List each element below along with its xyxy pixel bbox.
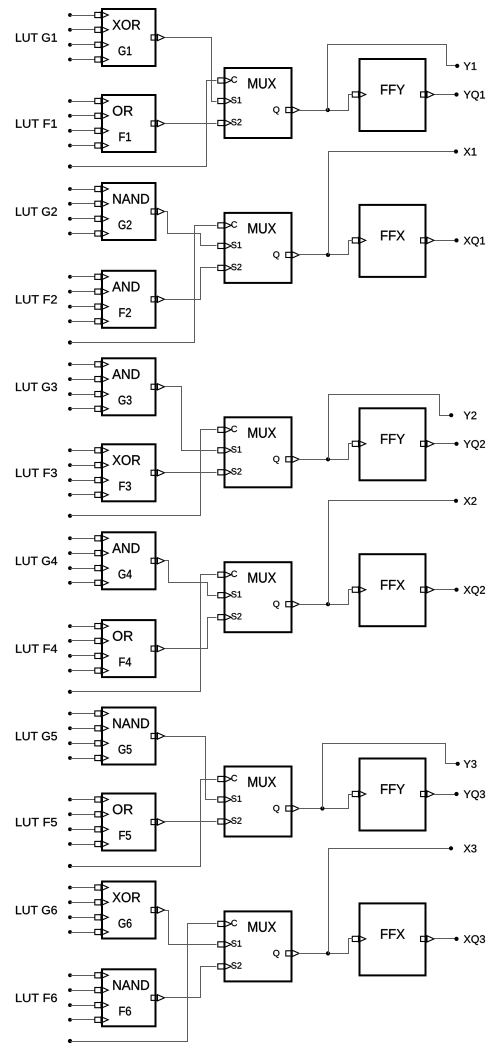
MUX MY2 block [225, 417, 292, 487]
LUT F5 input pin I2 wire [68, 811, 108, 817]
node: output terminal Y3 [456, 760, 477, 768]
LUT F4 input pin I1 wire [68, 623, 108, 629]
LUT G6 output pin [151, 907, 164, 913]
MUX MX3 pin S1 [218, 940, 242, 947]
wire: MUX Q -> FFX D [299, 241, 353, 255]
LUT F3 input pin I2 wire [68, 462, 108, 468]
node: Y2 junction on MUX Q net [326, 457, 330, 461]
net label LUT G5 [16, 732, 57, 740]
flip-flop FFX block [360, 205, 426, 277]
MUX MY2 output pin Q [273, 456, 299, 464]
MUX MX3 border [225, 911, 292, 981]
LUT F2 input pin I3 wire [68, 304, 108, 310]
LUT G1 block (XOR) [102, 9, 156, 66]
flip-flop FFY output pin Q [421, 791, 434, 797]
LUT F3 input pin I3 wire [68, 477, 108, 483]
MUX MY3 pin S1 [218, 795, 242, 802]
wire: LUT G3 out -> MUX S1 [165, 387, 217, 451]
net label LUT F4 [16, 645, 57, 653]
LUT G5 block (NAND) [102, 708, 156, 765]
LUT G1 input pin I2 wire [68, 27, 108, 33]
wire: LUT G5 out -> MUX S1 [165, 737, 217, 800]
MUX MY1 pin S1 [218, 97, 242, 104]
LUT G4 block (AND) [102, 532, 156, 589]
wire: LUT F2 out -> MUX S2 [165, 268, 217, 300]
node: output terminal XQ3 [454, 935, 485, 945]
wire: C rail -> MUX MY2 C (net K2) [68, 430, 217, 518]
node: Y3 junction on MUX Q net [320, 806, 324, 810]
LUT G6 block (XOR) [102, 882, 156, 939]
wire: FFX Q -> output XQ2 [435, 589, 457, 591]
LUT F2 border [102, 271, 156, 328]
wire: LUT F5 out -> MUX S2 [165, 821, 217, 823]
node: output terminal X3 [449, 845, 477, 853]
node: output terminal YQ1 [454, 91, 485, 101]
node: output terminal X2 [454, 497, 477, 505]
LUT F5 block (OR) [102, 794, 156, 851]
MUX MX3 block [225, 911, 292, 981]
LUT F6 input pin I3 wire [68, 1002, 108, 1008]
MUX MY1 block [225, 68, 292, 138]
MUX MY3 block [225, 767, 292, 837]
MUX MX3 pin C [218, 920, 237, 927]
wire: MUX Q -> FFY D [299, 95, 353, 111]
flip-flop FFX output pin Q [421, 587, 434, 593]
LUT F6 output pin [151, 995, 164, 1001]
flip-flop FFY output pin Q [421, 91, 434, 97]
LUT F1 border [102, 95, 156, 152]
MUX MX1 pin C [218, 221, 237, 228]
wire: C rail -> MUX MY3 C (net K3) [68, 780, 217, 869]
LUT G2 output pin [151, 208, 164, 214]
LUT G3 output pin [151, 384, 164, 390]
MUX MY2 pin C [218, 426, 237, 433]
node: output terminal Y1 [455, 62, 476, 70]
LUT F5 border [102, 794, 156, 851]
MUX MX3 output pin Q [273, 950, 299, 958]
wire: FFY Q -> output YQ1 [435, 94, 457, 96]
LUT F2 output pin [151, 296, 164, 302]
LUT G5 output pin [151, 733, 164, 739]
LUT G3 border [102, 358, 156, 415]
MUX MY3 output pin Q [273, 805, 299, 813]
wire: MUX Q -> FFY D [299, 795, 353, 809]
wire: MUX Q -> FFX D [299, 939, 353, 954]
node: output terminal X1 [454, 148, 477, 156]
LUT G2 border [102, 183, 156, 240]
wire: C rail -> MUX MX3 C (net K3x) [68, 924, 217, 1044]
net label LUT G3 [16, 383, 57, 391]
wire: LUT G1 out -> MUX S1 [165, 38, 217, 102]
net label LUT F6 [16, 994, 57, 1002]
LUT F1 input pin I1 wire [68, 98, 108, 104]
net label LUT G4 [16, 557, 57, 565]
MUX MY3 border [225, 767, 292, 837]
LUT F4 input pin I3 wire [68, 653, 108, 659]
wire: MUX Q -> output X1 [329, 152, 457, 255]
MUX MX1 border [225, 213, 292, 283]
flip-flop FFY block [360, 408, 426, 480]
LUT G3 block (AND) [102, 358, 156, 415]
LUT F1 input pin I2 wire [68, 113, 108, 119]
LUT F3 block (XOR) [102, 444, 156, 501]
flip-flop FFX output pin Q [421, 237, 434, 243]
LUT F6 input pin I4 wire [68, 1017, 108, 1023]
flip-flop FFX border [360, 554, 426, 626]
LUT G2 input pin I2 wire [68, 201, 108, 207]
flip-flop FFX output pin Q [421, 936, 434, 942]
MUX MX2 pin S2 [218, 613, 242, 620]
LUT F5 input pin I3 wire [68, 826, 108, 832]
MUX MY2 pin S2 [218, 468, 242, 475]
LUT G2 input pin I3 wire [68, 216, 108, 222]
LUT F4 input pin I2 wire [68, 638, 108, 644]
MUX MY2 border [225, 417, 292, 487]
LUT F2 input pin I2 wire [68, 289, 108, 295]
flip-flop FFY border [360, 759, 426, 831]
wire: MUX Q -> output Y2 [329, 395, 452, 460]
LUT F4 block (OR) [102, 620, 156, 677]
node: output terminal YQ2 [454, 440, 485, 450]
LUT G6 input pin I2 wire [68, 899, 108, 905]
node: Y1 junction on MUX Q net [326, 108, 330, 112]
MUX MY2 pin S1 [218, 446, 242, 453]
wire: LUT G6 out -> MUX S1 [165, 911, 217, 945]
LUT G3 input pin I3 wire [68, 391, 108, 397]
flip-flop FFX input pin D [352, 936, 365, 942]
wire: MUX Q -> output X3 [329, 849, 452, 954]
flip-flop FFX block [360, 554, 426, 626]
LUT G5 input pin I1 wire [68, 710, 108, 716]
flip-flop FFY input pin D [352, 91, 365, 97]
MUX MX1 pin S2 [218, 264, 242, 271]
flip-flop FFY block [360, 59, 426, 131]
wire: MUX Q -> output X2 [329, 501, 457, 605]
flip-flop FFX border [360, 205, 426, 277]
node: output terminal Y2 [449, 412, 476, 420]
MUX MX1 pin S1 [218, 242, 242, 249]
LUT F1 input pin I3 wire [68, 128, 108, 134]
LUT G4 input pin I1 wire [68, 535, 108, 541]
LUT G3 input pin I4 wire [68, 406, 108, 412]
net label LUT F5 [16, 818, 57, 826]
MUX MY1 output pin Q [273, 107, 299, 115]
wire: LUT F1 out -> MUX S2 [165, 123, 217, 125]
node: X3 junction on MUX Q net [326, 951, 330, 955]
LUT G1 input pin I3 wire [68, 42, 108, 48]
LUT F2 input pin I1 wire [68, 274, 108, 280]
flip-flop FFX block [360, 903, 426, 975]
LUT G4 border [102, 532, 156, 589]
MUX MY3 pin C [218, 775, 237, 782]
LUT G3 input pin I1 wire [68, 361, 108, 367]
LUT F3 output pin [151, 470, 164, 476]
LUT F3 input pin I4 wire [68, 492, 108, 498]
LUT G2 input pin I4 wire [68, 230, 108, 236]
LUT F4 input pin I4 wire [68, 668, 108, 674]
MUX MY3 pin S2 [218, 817, 242, 824]
node: X2 junction on MUX Q net [326, 602, 330, 606]
wire: LUT F4 out -> MUX S2 [165, 618, 217, 649]
LUT G1 output pin [151, 34, 164, 40]
LUT F1 input pin I4 wire [68, 142, 108, 148]
wire: LUT F3 out -> MUX S2 [165, 472, 217, 474]
LUT F6 border [102, 969, 156, 1026]
MUX MX2 pin S1 [218, 591, 242, 598]
wire: LUT G4 out -> MUX S1 [165, 561, 217, 596]
wire: C rail -> MUX MX1 C (net K1x) [68, 226, 217, 345]
LUT F3 input pin I1 wire [68, 447, 108, 453]
MUX MX1 block [225, 213, 292, 283]
LUT G4 input pin I4 wire [68, 580, 108, 586]
LUT G1 input pin I4 wire [68, 56, 108, 62]
LUT G5 border [102, 708, 156, 765]
node: output terminal YQ3 [454, 790, 485, 800]
LUT G1 input pin I1 wire [68, 12, 108, 18]
LUT F6 block (NAND) [102, 969, 156, 1026]
LUT F5 input pin I4 wire [68, 841, 108, 847]
flip-flop FFY output pin Q [421, 441, 434, 447]
LUT G4 input pin I3 wire [68, 565, 108, 571]
node: X1 junction on MUX Q net [326, 253, 330, 257]
node: output terminal XQ1 [454, 237, 485, 247]
flip-flop FFY border [360, 59, 426, 131]
LUT G3 input pin I2 wire [68, 376, 108, 382]
wire: MUX Q -> output Y1 [328, 45, 458, 111]
LUT F2 block (AND) [102, 271, 156, 328]
net label LUT G1 [16, 33, 57, 41]
LUT F4 output pin [151, 646, 164, 652]
flip-flop FFX input pin D [352, 587, 365, 593]
net label LUT G2 [16, 207, 57, 215]
MUX MX1 output pin Q [273, 251, 299, 259]
LUT G6 border [102, 882, 156, 939]
LUT G5 input pin I2 wire [68, 725, 108, 731]
LUT F3 border [102, 444, 156, 501]
flip-flop FFY border [360, 408, 426, 480]
LUT G5 input pin I4 wire [68, 755, 108, 761]
wire: FFX Q -> output XQ1 [435, 240, 457, 242]
LUT G4 input pin I2 wire [68, 550, 108, 556]
LUT F6 input pin I2 wire [68, 987, 108, 993]
LUT F1 block (OR) [102, 95, 156, 152]
LUT G6 input pin I3 wire [68, 914, 108, 920]
net label LUT G6 [16, 906, 57, 914]
LUT G5 input pin I3 wire [68, 740, 108, 746]
wire: MUX Q -> FFY D [299, 444, 353, 460]
flip-flop FFY input pin D [352, 441, 365, 447]
MUX MY1 pin S2 [218, 119, 242, 126]
MUX MX2 pin C [218, 571, 237, 578]
MUX MX2 output pin Q [273, 601, 299, 609]
LUT F6 input pin I1 wire [68, 972, 108, 978]
LUT F5 input pin I1 wire [68, 796, 108, 802]
LUT F1 output pin [151, 120, 164, 126]
LUT G4 output pin [151, 558, 164, 564]
flip-flop FFY input pin D [352, 791, 365, 797]
LUT G2 block (NAND) [102, 183, 156, 240]
MUX MY1 pin C [218, 76, 237, 83]
LUT G6 input pin I4 wire [68, 929, 108, 935]
flip-flop FFX border [360, 903, 426, 975]
flip-flop FFX input pin D [352, 237, 365, 243]
wire: MUX Q -> output Y3 [323, 744, 458, 809]
wire: FFY Q -> output YQ3 [435, 794, 457, 796]
wire: C rail -> MUX MX2 C (net K2x) [68, 575, 217, 694]
flip-flop FFY block [360, 759, 426, 831]
wire: MUX Q -> FFX D [299, 590, 353, 605]
net label LUT F3 [16, 469, 57, 477]
MUX MX2 block [225, 562, 292, 632]
MUX MX3 pin S2 [218, 962, 242, 969]
wire: C rail -> MUX MY1 C (net K1) [68, 81, 217, 169]
net label LUT F1 [16, 119, 57, 127]
LUT F2 input pin I4 wire [68, 318, 108, 324]
MUX MY1 border [225, 68, 292, 138]
LUT G6 input pin I1 wire [68, 884, 108, 890]
node: output terminal XQ2 [454, 586, 485, 596]
LUT G1 border [102, 9, 156, 66]
LUT F5 output pin [151, 819, 164, 825]
wire: LUT G2 out -> MUX S1 [165, 212, 217, 246]
wire: LUT F6 out -> MUX S2 [165, 967, 217, 998]
wire: FFX Q -> output XQ3 [435, 938, 457, 940]
net label LUT F2 [16, 295, 57, 303]
wire: FFY Q -> output YQ2 [435, 443, 457, 445]
LUT G2 input pin I1 wire [68, 186, 108, 192]
MUX MX2 border [225, 562, 292, 632]
LUT F4 border [102, 620, 156, 677]
